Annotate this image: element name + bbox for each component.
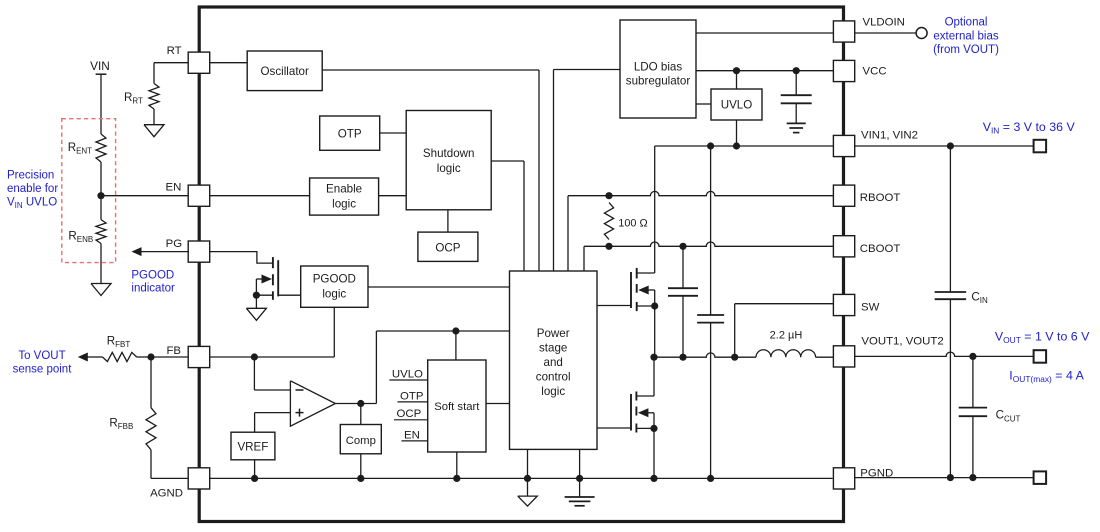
svg-text:external bias: external bias [933,31,998,43]
svg-text:VREF: VREF [237,441,268,454]
svg-text:Precision: Precision [7,169,54,181]
svg-text:Comp: Comp [346,435,376,447]
svg-text:OTP: OTP [400,390,423,402]
svg-text:OCP: OCP [397,408,422,420]
svg-text:UVLO: UVLO [392,368,423,380]
svg-text:OCP: OCP [435,242,460,255]
svg-text:RT: RT [167,45,182,57]
svg-text:Oscillator: Oscillator [261,65,309,78]
svg-text:Soft start: Soft start [434,401,480,413]
svg-text:stage: stage [539,341,567,354]
svg-text:RBOOT: RBOOT [860,192,901,204]
svg-text:VIN UVLO: VIN UVLO [7,196,57,210]
svg-text:sense point: sense point [13,363,73,375]
svg-text:PG: PG [166,238,183,250]
svg-text:(from VOUT): (from VOUT) [933,44,999,56]
svg-text:enable for: enable for [7,183,58,195]
svg-text:PGOOD: PGOOD [313,273,356,286]
svg-text:100 Ω: 100 Ω [618,218,647,230]
svg-text:OTP: OTP [338,128,362,141]
svg-text:LDO bias: LDO bias [634,61,683,74]
svg-text:2.2 µH: 2.2 µH [770,330,803,342]
svg-text:logic: logic [322,288,346,301]
svg-text:Enable: Enable [326,183,362,196]
svg-text:and: and [544,356,563,369]
svg-text:UVLO: UVLO [721,99,753,112]
svg-text:subregulator: subregulator [626,75,691,88]
svg-text:EN: EN [404,429,420,441]
svg-text:logic: logic [332,198,356,211]
svg-text:VOUT1, VOUT2: VOUT1, VOUT2 [861,336,943,348]
svg-text:Shutdown: Shutdown [423,147,475,160]
svg-text:logic: logic [541,385,565,398]
svg-text:indicator: indicator [131,283,175,295]
svg-text:To VOUT: To VOUT [18,350,65,362]
svg-text:EN: EN [165,182,181,194]
svg-text:FB: FB [166,345,181,357]
svg-text:VIN1, VIN2: VIN1, VIN2 [861,130,918,142]
svg-text:Power: Power [537,327,570,340]
svg-text:logic: logic [437,162,461,175]
svg-text:VCC: VCC [863,66,887,78]
svg-text:AGND: AGND [150,488,183,500]
svg-text:VIN: VIN [90,59,110,73]
svg-text:VLDOIN: VLDOIN [863,16,905,28]
svg-text:CBOOT: CBOOT [860,243,901,255]
svg-text:PGOOD: PGOOD [131,270,174,282]
svg-text:control: control [536,371,571,384]
svg-text:Optional: Optional [945,17,988,29]
svg-text:SW: SW [861,302,880,314]
